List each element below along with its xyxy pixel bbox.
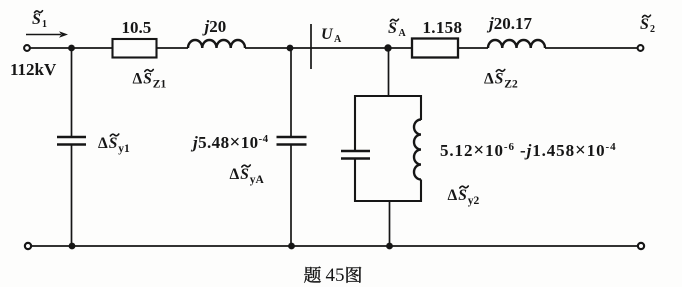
svg-text:S: S [458,187,467,204]
terminal T3 (bottom left) [25,243,31,249]
junction node SA dot [384,44,391,51]
junction dot bottom of left shunt [69,243,76,250]
label delta-S-Z1 [133,70,167,91]
svg-text:Δ: Δ [98,135,108,152]
resistor R2 value 1.158 [412,39,458,58]
inductor Ly2 (vertical coil, arcs bulge left) [414,120,421,180]
svg-text:1.158: 1.158 [423,18,463,37]
svg-text:45: 45 [326,265,345,286]
svg-text:j20: j20 [202,17,227,36]
wire: loop bottom to bus [389,201,391,246]
label S2 [640,15,655,35]
svg-text:y2: y2 [468,195,480,207]
junction dot bottom of middle shunt [288,243,295,250]
svg-text:Z1: Z1 [153,79,167,91]
svg-text:Z2: Z2 [504,79,518,91]
junction dot bottom of SA shunt [386,243,393,250]
terminal T4 (bottom right) [638,243,644,249]
svg-text:Δ: Δ [133,71,143,88]
svg-text:j20.17: j20.17 [486,14,532,33]
svg-text:1: 1 [42,19,47,30]
capacitor CyA plates [277,137,307,145]
svg-text:S: S [109,135,118,152]
wire: loop left side lower [354,159,356,202]
svg-text:A: A [334,34,342,45]
wire: top bus, L1 to R2 (through node A junction and UA tick) [245,47,412,49]
label delta-S-Z2 [484,70,518,91]
label S_A node [388,19,407,39]
wire: top bus, R2 to L2 [458,47,488,49]
junction node at top of middle shunt [287,45,294,52]
svg-text:5.12×10-6 -j1.458×10-4: 5.12×10-6 -j1.458×10-4 [440,140,616,161]
wire: top bus, R1 to L1 [157,47,189,49]
wire: loop bottom side [354,200,422,202]
wire: loop left side upper [354,95,356,151]
svg-text:yA: yA [250,174,265,186]
inductor L1 value j20 [188,40,245,48]
label S1 (tilde S subscript 1) [32,11,47,30]
wire: left shunt branch lower [71,145,73,246]
label delta-S-y1 [98,134,130,155]
svg-text:S: S [640,16,649,33]
svg-text:Δ: Δ [230,166,240,183]
wire: loop top side [354,95,422,97]
label delta-S-y2 [448,186,480,207]
svg-text:j5.48×10-4: j5.48×10-4 [190,132,269,153]
svg-text:Δ: Δ [448,187,458,204]
svg-text:S: S [32,11,41,28]
svg-text:2: 2 [650,24,655,35]
junction node 1 (top of left shunt) [68,45,75,52]
svg-text:S: S [388,20,397,37]
wire: middle shunt branch lower [290,145,292,246]
resistor R1 value 10.5 [113,39,157,58]
svg-text:y1: y1 [118,143,130,155]
inductor L2 value j20.17 [488,40,545,48]
wire: top bus, L2 to T2 [545,47,637,49]
wire: middle shunt branch upper [290,48,292,137]
wire: bottom bus [32,245,638,247]
capacitor Cy2 plates [341,151,370,159]
svg-text:10.5: 10.5 [122,18,152,37]
wire: SA node down to loop top [388,48,390,96]
terminal T1 (S1 input, top left) [24,45,30,51]
svg-text:S: S [495,71,504,88]
capacitor Cy1 plates [57,137,86,145]
voltage tap tick U_A [310,24,312,69]
label delta-S-yA [230,165,265,186]
svg-text:A: A [399,28,407,39]
wire: left shunt branch upper [71,48,73,137]
wire: top bus, T1 to R1 [31,47,113,49]
caption: problem 45 figure (CJK glyphs as paths) [304,265,361,286]
arrow: S1 power flow direction [26,31,68,37]
svg-text:112kV: 112kV [10,60,57,79]
svg-text:S: S [143,71,152,88]
terminal T2 (S2 output, top right) [638,45,644,51]
svg-text:U: U [321,26,334,43]
wire: loop right side lower [420,180,422,203]
wire: loop right side upper [420,95,422,120]
svg-text:S: S [240,166,249,183]
svg-text:Δ: Δ [484,71,494,88]
